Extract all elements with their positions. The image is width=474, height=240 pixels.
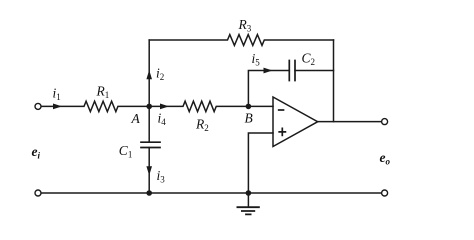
svg-text:B: B bbox=[245, 111, 253, 126]
svg-text:A: A bbox=[131, 111, 141, 126]
